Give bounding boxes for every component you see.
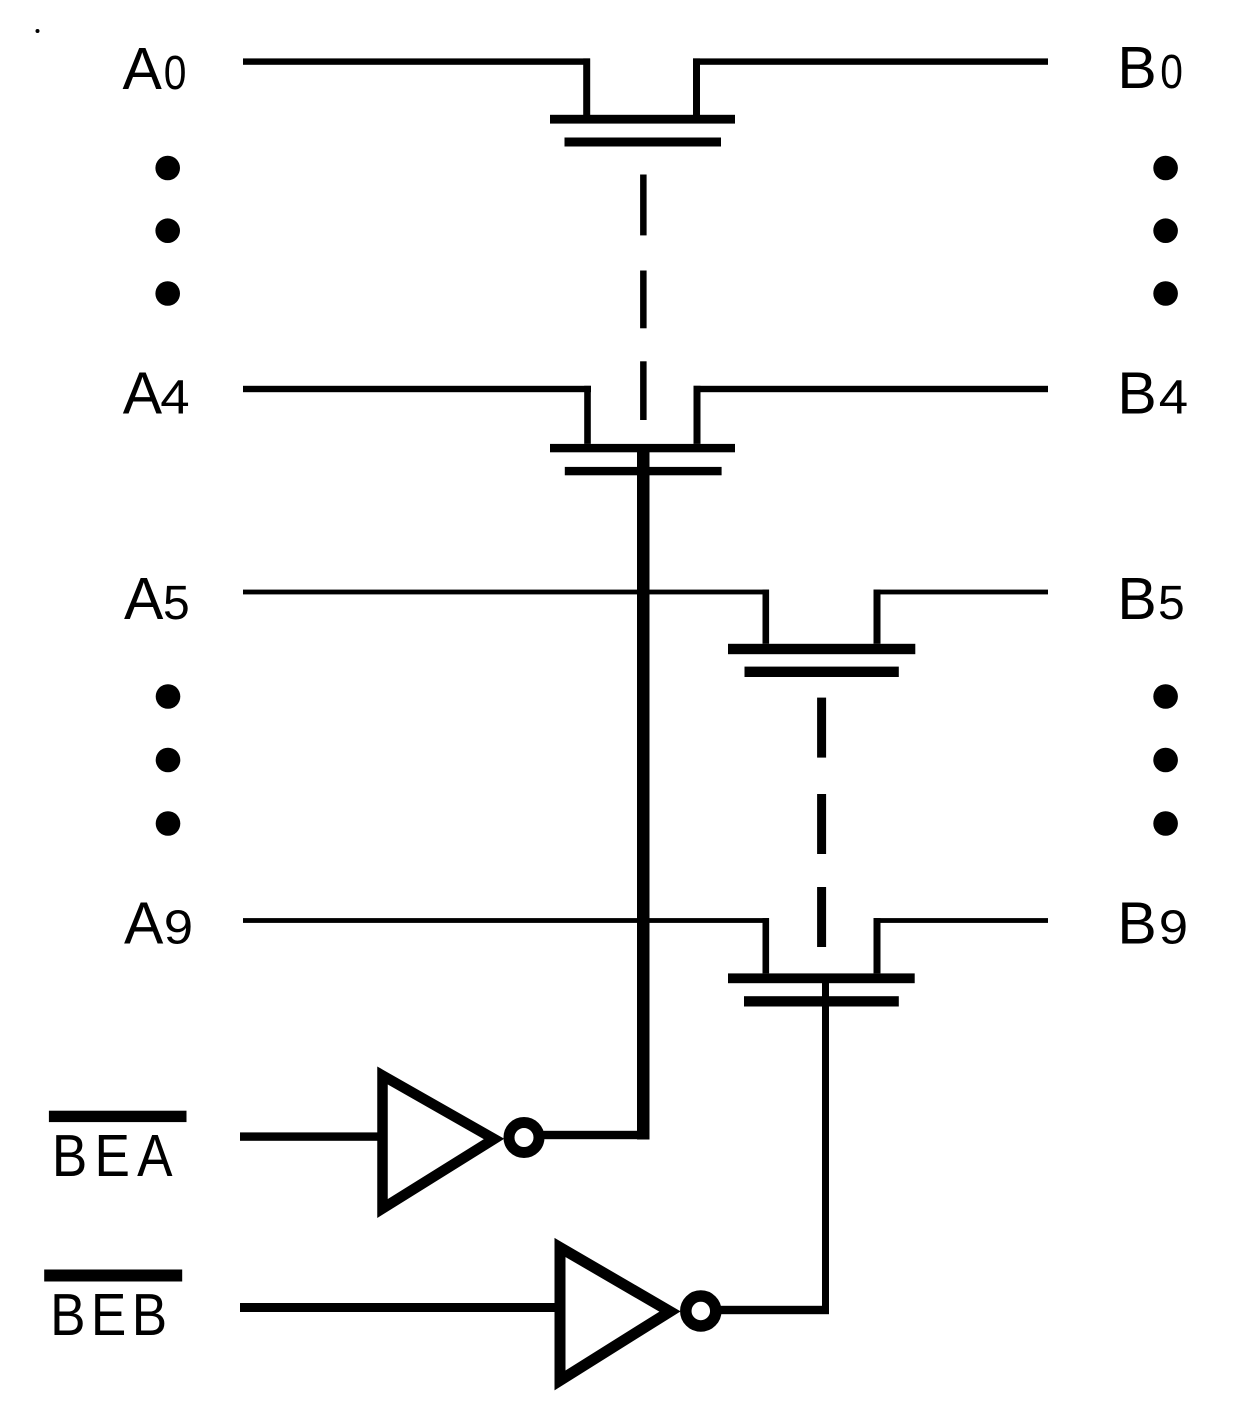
svg-text:B: B <box>1117 361 1156 427</box>
svg-text:5: 5 <box>163 577 190 630</box>
svg-text:BEA: BEA <box>52 1122 180 1188</box>
svg-text:4: 4 <box>1159 370 1188 424</box>
svg-text:A: A <box>124 890 164 956</box>
svg-text:A: A <box>123 361 163 427</box>
svg-text:A: A <box>123 36 163 102</box>
svg-text:5: 5 <box>1158 577 1185 630</box>
svg-text:0: 0 <box>164 47 187 100</box>
svg-text:9: 9 <box>1159 900 1188 954</box>
svg-text:9: 9 <box>164 900 193 954</box>
svg-text:B: B <box>1117 890 1156 956</box>
svg-text:B: B <box>1117 35 1156 101</box>
svg-text:0: 0 <box>1160 46 1183 99</box>
svg-text:A: A <box>124 566 164 632</box>
svg-text:BEB: BEB <box>50 1281 172 1347</box>
svg-text:4: 4 <box>160 370 189 424</box>
svg-text:B: B <box>1117 566 1156 632</box>
